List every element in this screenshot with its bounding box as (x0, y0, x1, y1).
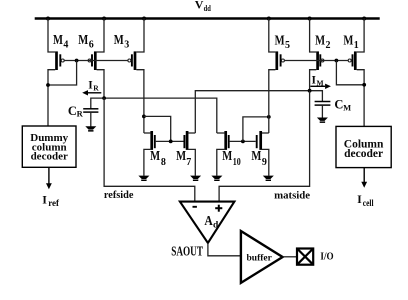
svg-text:9: 9 (262, 157, 267, 168)
svg-text:M: M (222, 149, 232, 164)
node M4 drain (46, 83, 50, 87)
transistor M2 (310, 19, 324, 91)
transistor M1 (348, 19, 364, 127)
svg-text:M: M (317, 79, 324, 88)
node gate M10-M9 (241, 140, 245, 144)
wire gate M8-M7 (156, 140, 184, 142)
svg-text:10: 10 (233, 157, 241, 168)
ground CR (85, 126, 96, 131)
wire B matside cross-couple (M7 drain to M2 drain) (195, 91, 322, 133)
svg-text:M: M (343, 34, 353, 49)
transistor M8 (144, 131, 155, 176)
wire M1 gate-drain loop (336, 61, 364, 85)
capacitor CR (83, 109, 98, 112)
Vdd power rail (35, 17, 380, 20)
svg-text:3: 3 (124, 39, 129, 50)
svg-text:R: R (93, 84, 99, 93)
wire M5-M9 drain (268, 91, 270, 133)
svg-text:M: M (114, 33, 124, 48)
wire M9 gate-drain loop (243, 117, 269, 141)
arrow IR (82, 90, 101, 95)
arrow Iref (46, 168, 52, 190)
svg-text:M: M (275, 34, 285, 49)
svg-text:refside: refside (104, 189, 134, 201)
arrow Icell (361, 168, 367, 188)
svg-text:8: 8 (161, 157, 166, 168)
svg-text:M: M (78, 33, 88, 48)
node rail-M6 (102, 17, 106, 21)
buffer triangle (241, 231, 283, 283)
I/O pad box (297, 249, 313, 265)
svg-text:matside: matside (274, 189, 310, 201)
svg-text:I: I (42, 192, 47, 206)
node matside CM tap (308, 89, 312, 93)
node gate bus right (335, 59, 339, 63)
ground CM (317, 118, 328, 123)
op-amp minus sign (193, 206, 197, 208)
svg-text:6: 6 (89, 39, 94, 50)
wire gate M10-M9 (230, 140, 256, 142)
node gate bus left (75, 59, 79, 63)
node M1 drain (362, 83, 366, 87)
dummy column decoder box (22, 126, 76, 167)
svg-text:M: M (150, 149, 160, 164)
svg-text:M: M (176, 149, 186, 164)
svg-text:M: M (251, 149, 261, 164)
svg-text:R: R (77, 109, 84, 119)
wire M4 gate-drain loop (48, 61, 77, 86)
ground M7 (190, 176, 201, 181)
ground M8 (138, 176, 149, 181)
node rail-M2 (308, 17, 312, 21)
transistor M6 (88, 19, 104, 99)
svg-text:ref: ref (48, 198, 60, 208)
svg-text:I/O: I/O (320, 252, 333, 263)
svg-text:cell: cell (363, 198, 374, 208)
svg-text:M: M (315, 34, 325, 49)
wire M8 gate-drain loop (144, 116, 171, 141)
node M8 drain (142, 115, 146, 119)
wire matside vertical (219, 91, 310, 202)
svg-text:A: A (204, 213, 213, 228)
arrow IM (310, 84, 331, 89)
transistor M9 (257, 131, 269, 176)
node rail-M1 (362, 17, 366, 21)
svg-text:M: M (53, 33, 63, 48)
node M9 drain (267, 115, 271, 119)
wire gate bus left (M4-M6-M3 gates) (64, 60, 128, 62)
column decoder box (336, 126, 391, 167)
wire A refside cross-couple (M6 drain to M10 drain) (91, 98, 217, 133)
transistor M10 (217, 131, 229, 176)
svg-text:5: 5 (285, 40, 290, 51)
transistor M7 (184, 131, 195, 176)
svg-text:7: 7 (186, 157, 191, 168)
wire CM to ground (321, 105, 323, 118)
svg-text:M: M (343, 102, 351, 112)
svg-text:2: 2 (326, 40, 331, 51)
svg-text:1: 1 (354, 40, 359, 51)
transistor M3 (128, 19, 144, 134)
wire SAOUT (208, 243, 241, 256)
svg-text:d: d (213, 221, 219, 231)
ground M10 (211, 176, 222, 181)
node rail-M3 (142, 17, 146, 21)
svg-text:C: C (334, 98, 343, 112)
svg-text:dd: dd (204, 3, 211, 13)
svg-text:buffer: buffer (247, 253, 273, 263)
node refside CR tap (102, 96, 106, 100)
capacitor CM (315, 102, 331, 106)
svg-text:V: V (195, 0, 204, 12)
svg-text:SAOUT: SAOUT (171, 243, 203, 258)
svg-text:C: C (68, 104, 77, 118)
svg-text:decoder: decoder (31, 150, 68, 162)
ground M9 (263, 176, 274, 181)
svg-text:4: 4 (63, 39, 68, 50)
svg-text:I: I (357, 192, 362, 206)
op-amp plus sign (215, 205, 222, 212)
node gate M8-M7 (169, 140, 173, 144)
op-amp Ad (180, 202, 235, 243)
node rail-M5 (267, 17, 271, 21)
wire refside vertical (104, 98, 195, 202)
transistor M4 (48, 19, 64, 127)
transistor M5 (269, 19, 285, 91)
wire gate bus right (M5-M2-M1 gates) (284, 60, 348, 62)
svg-text:decoder: decoder (344, 148, 383, 160)
node rail-M4 (46, 17, 50, 21)
wire buffer to IO (283, 256, 297, 258)
wire CR to ground (90, 112, 92, 127)
